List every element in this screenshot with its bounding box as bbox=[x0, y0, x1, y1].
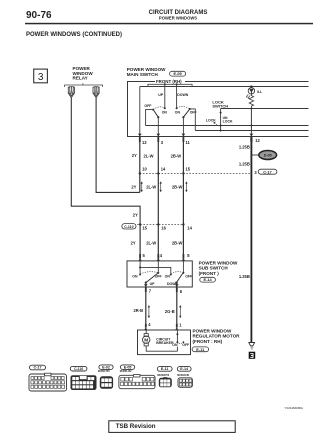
wire pin8 into sub switch bbox=[182, 261, 184, 273]
svg-text:Y0J11M038A: Y0J11M038A bbox=[285, 406, 304, 410]
svg-text:4: 4 bbox=[148, 322, 151, 327]
svg-text:12: 12 bbox=[255, 138, 260, 143]
svg-text:7: 7 bbox=[149, 289, 152, 294]
MID_END bbox=[122, 134, 277, 343]
HEADER_END bbox=[34, 66, 309, 224]
wire relay terminal 2 to main switch pin 13 branch bbox=[96, 98, 140, 193]
wire DOWN contact bbox=[176, 84, 178, 108]
svg-text:LOCK: LOCK bbox=[206, 118, 216, 122]
wire bus L2 drop to pin 13 bbox=[139, 87, 141, 137]
wire internal bus L3 bbox=[221, 108, 309, 110]
switch S3 label bbox=[199, 261, 238, 283]
svg-text:MU801756: MU801756 bbox=[98, 370, 110, 373]
svg-text:2B-W: 2B-W bbox=[171, 153, 182, 158]
svg-text:SWITCH: SWITCH bbox=[212, 103, 228, 108]
svg-text:ON: ON bbox=[175, 111, 181, 115]
page reference numeral 3 (boxed) bbox=[34, 69, 48, 83]
svg-text:3: 3 bbox=[161, 140, 164, 145]
node dot L4 crossing bbox=[250, 125, 252, 127]
svg-text:BREAKER: BREAKER bbox=[156, 341, 174, 345]
svg-text:2R-B: 2R-B bbox=[134, 308, 144, 313]
svg-text:OFF: OFF bbox=[144, 104, 152, 108]
pin 12 of E-05 bbox=[250, 134, 261, 143]
node dot DOWN wire bbox=[176, 83, 178, 85]
connector face E-05 bbox=[119, 365, 155, 389]
svg-text:2Y: 2Y bbox=[131, 241, 136, 246]
svg-text:5: 5 bbox=[143, 253, 146, 258]
connector face C-110 bbox=[70, 366, 96, 390]
svg-text:10: 10 bbox=[142, 167, 147, 172]
connector face E-02 bbox=[98, 365, 113, 389]
svg-text:E-05: E-05 bbox=[124, 365, 132, 369]
pin 6 of E-14 bbox=[175, 284, 183, 294]
svg-text:ON: ON bbox=[132, 274, 138, 278]
svg-text:1.25B: 1.25B bbox=[239, 274, 250, 279]
relay K1 label: POWER WINDOW RELAY bbox=[73, 66, 94, 81]
svg-text:OFF: OFF bbox=[185, 274, 193, 278]
svg-text:C-110: C-110 bbox=[74, 367, 83, 371]
connector face E-11 bbox=[157, 367, 172, 388]
node dot resistor to L3 bbox=[250, 108, 252, 110]
svg-text:ON: ON bbox=[162, 111, 168, 115]
connector (relay terminal 2) bbox=[93, 86, 99, 97]
wire 2Y to sub switch pin 5 bbox=[139, 225, 141, 257]
pin 4 of E-11 bbox=[144, 322, 151, 330]
lamp ILL bbox=[246, 85, 263, 99]
wire continuation arrows (harness) bbox=[148, 305, 182, 318]
svg-text:13: 13 bbox=[142, 140, 147, 145]
connector face C-17 bbox=[29, 365, 67, 391]
relay bracket bbox=[65, 83, 103, 87]
svg-text:UP: UP bbox=[158, 93, 164, 97]
svg-text:90-76: 90-76 bbox=[26, 10, 52, 21]
svg-text:(FRONT ): (FRONT ) bbox=[199, 271, 220, 276]
svg-text:15: 15 bbox=[186, 167, 191, 172]
node FRONT (RH) label bbox=[155, 78, 185, 84]
svg-text:TSB Revision: TSB Revision bbox=[116, 423, 156, 430]
wire 1.25B ground (heavy) bbox=[250, 142, 252, 343]
motor M1 label bbox=[192, 328, 240, 351]
svg-text:OFF: OFF bbox=[182, 343, 190, 347]
node splice D-05 bbox=[250, 151, 276, 160]
svg-text:E-05: E-05 bbox=[173, 71, 182, 76]
switch S2 label: LOCK SWITCH bbox=[212, 99, 228, 108]
svg-text:(FRONT : RH): (FRONT : RH) bbox=[193, 339, 223, 344]
node dot UP wire bbox=[164, 83, 166, 85]
svg-text:2B-W: 2B-W bbox=[172, 241, 183, 246]
wire internal bus L4 bbox=[146, 125, 309, 127]
svg-text:2B-W: 2B-W bbox=[172, 185, 183, 190]
svg-text:3: 3 bbox=[38, 72, 44, 83]
pin 7 of E-14 bbox=[144, 284, 152, 294]
resistor R1 (illumination) bbox=[249, 94, 253, 108]
svg-text:11: 11 bbox=[186, 140, 191, 145]
bracket under FRONT (RH) bbox=[148, 84, 192, 86]
pin 8 of E-14 bbox=[182, 253, 191, 261]
svg-text:C-110: C-110 bbox=[124, 225, 133, 229]
wire continuation arrows (harness) bbox=[141, 181, 188, 192]
main switch box outline bbox=[128, 82, 309, 137]
svg-text:1.25B: 1.25B bbox=[239, 161, 250, 166]
svg-text:MU801452: MU801452 bbox=[120, 370, 132, 373]
circuit breaker switch bbox=[172, 330, 190, 351]
svg-text:D-05: D-05 bbox=[264, 154, 272, 158]
svg-text:ON: ON bbox=[165, 274, 171, 278]
svg-text:2Y: 2Y bbox=[132, 153, 137, 158]
wire internal bus L2 bbox=[140, 86, 309, 88]
svg-text:3: 3 bbox=[254, 170, 257, 175]
circuit breaker CB label bbox=[156, 337, 174, 345]
wire 2G-B sub pin6 to motor pin1 bbox=[176, 292, 178, 323]
switch S3b (DOWN) bbox=[165, 272, 193, 287]
wire 2B-W pin11 down bbox=[182, 142, 184, 256]
svg-text:FRONT (RH): FRONT (RH) bbox=[156, 79, 182, 84]
svg-text:RELAY: RELAY bbox=[73, 76, 88, 81]
svg-text:16: 16 bbox=[161, 225, 166, 230]
svg-text:1: 1 bbox=[179, 322, 182, 327]
pin 4 of E-14 bbox=[157, 253, 163, 261]
switch S1b (DOWN switch) bbox=[175, 106, 198, 136]
svg-text:2L-W: 2L-W bbox=[144, 153, 154, 158]
wire pin4 into sub switch bbox=[157, 261, 159, 273]
connector C-110 (intermediate, dashed) bbox=[122, 223, 193, 230]
motor M1 box: POWER WINDOW REGULATOR MOTOR bbox=[138, 330, 191, 355]
svg-text:MAIN SWITCH: MAIN SWITCH bbox=[127, 72, 159, 77]
wire UP contact bbox=[164, 84, 166, 108]
off-page connector (ground continuation) bbox=[249, 343, 256, 359]
svg-text:OFF: OFF bbox=[190, 110, 198, 114]
svg-text:POWER WINDOWS: POWER WINDOWS bbox=[159, 16, 197, 21]
switch S3 box: POWER WINDOW SUB SWITCH bbox=[127, 261, 192, 287]
svg-text:UP: UP bbox=[150, 282, 156, 286]
motor M1 symbol bbox=[143, 330, 178, 351]
pin 13 of E-05 bbox=[138, 134, 147, 145]
page header bbox=[25, 10, 313, 38]
svg-text:POWER WINDOW: POWER WINDOW bbox=[193, 328, 232, 333]
svg-text:2L-W: 2L-W bbox=[146, 241, 156, 246]
svg-text:MU802756: MU802756 bbox=[157, 374, 169, 377]
svg-text:1.25B: 1.25B bbox=[239, 145, 250, 150]
switch S3a (UP) bbox=[132, 272, 162, 287]
svg-text:15: 15 bbox=[142, 225, 147, 230]
wire internal bus L5 bbox=[195, 130, 308, 132]
wire pin 12 drop bbox=[250, 109, 252, 137]
svg-text:E-11: E-11 bbox=[161, 367, 169, 371]
connector face E-14 bbox=[177, 367, 192, 388]
switch S1a (UP switch) bbox=[144, 104, 167, 136]
wire internal bus sub switch bbox=[140, 267, 171, 273]
switch S1 label: POWER WINDOW MAIN SWITCH bbox=[127, 67, 166, 77]
svg-text:MU802448: MU802448 bbox=[177, 374, 189, 377]
pin 3 of E-05 bbox=[157, 134, 164, 145]
pin 11 of E-05 bbox=[182, 134, 191, 145]
svg-text:2Y: 2Y bbox=[133, 212, 138, 217]
connector C-17 (intermediate, dashed) bbox=[139, 167, 277, 175]
svg-text:14: 14 bbox=[187, 225, 192, 230]
svg-text:LOCK: LOCK bbox=[223, 120, 233, 124]
svg-text:ILL: ILL bbox=[257, 90, 263, 94]
SEG2_END bbox=[127, 261, 255, 359]
svg-text:C-17: C-17 bbox=[263, 169, 271, 174]
svg-text:4: 4 bbox=[160, 253, 163, 258]
svg-text:E-14: E-14 bbox=[203, 277, 212, 282]
pin 1 of E-11 bbox=[175, 322, 182, 330]
lock switch S2 bbox=[206, 109, 233, 132]
svg-text:C-17: C-17 bbox=[34, 366, 42, 370]
connector (relay terminal 1) bbox=[68, 86, 74, 97]
svg-text:E-11: E-11 bbox=[196, 347, 205, 352]
node dot bus tap bbox=[139, 266, 141, 268]
wire 2L-W pin3 down bbox=[157, 142, 159, 256]
wire 2Y pin13 to relay branch bbox=[139, 142, 141, 192]
wire 2R-B sub pin7 to motor pin4 bbox=[145, 292, 147, 323]
svg-text:REGULATOR MOTOR: REGULATOR MOTOR bbox=[193, 334, 241, 339]
svg-text:14: 14 bbox=[161, 167, 166, 172]
connector label E-05 bbox=[170, 71, 186, 76]
svg-text:ON: ON bbox=[172, 343, 178, 347]
svg-text:6: 6 bbox=[180, 289, 183, 294]
pin 5 of E-14 bbox=[138, 253, 145, 261]
FOOTER bbox=[109, 406, 304, 432]
svg-text:8: 8 bbox=[187, 253, 190, 258]
svg-text:2L-W: 2L-W bbox=[146, 185, 156, 190]
svg-text:E-14: E-14 bbox=[180, 367, 189, 371]
svg-text:DOWN: DOWN bbox=[177, 93, 189, 97]
svg-text:E-02: E-02 bbox=[102, 365, 110, 369]
wire relay terminal 1 to connector C-110 pin 15 bbox=[71, 98, 140, 225]
wire pin5 into sub switch bbox=[139, 261, 141, 275]
svg-text:POWER WINDOWS (CONTINUED): POWER WINDOWS (CONTINUED) bbox=[26, 32, 122, 38]
svg-text:2Y: 2Y bbox=[131, 184, 136, 189]
svg-text:2G-B: 2G-B bbox=[165, 309, 175, 314]
